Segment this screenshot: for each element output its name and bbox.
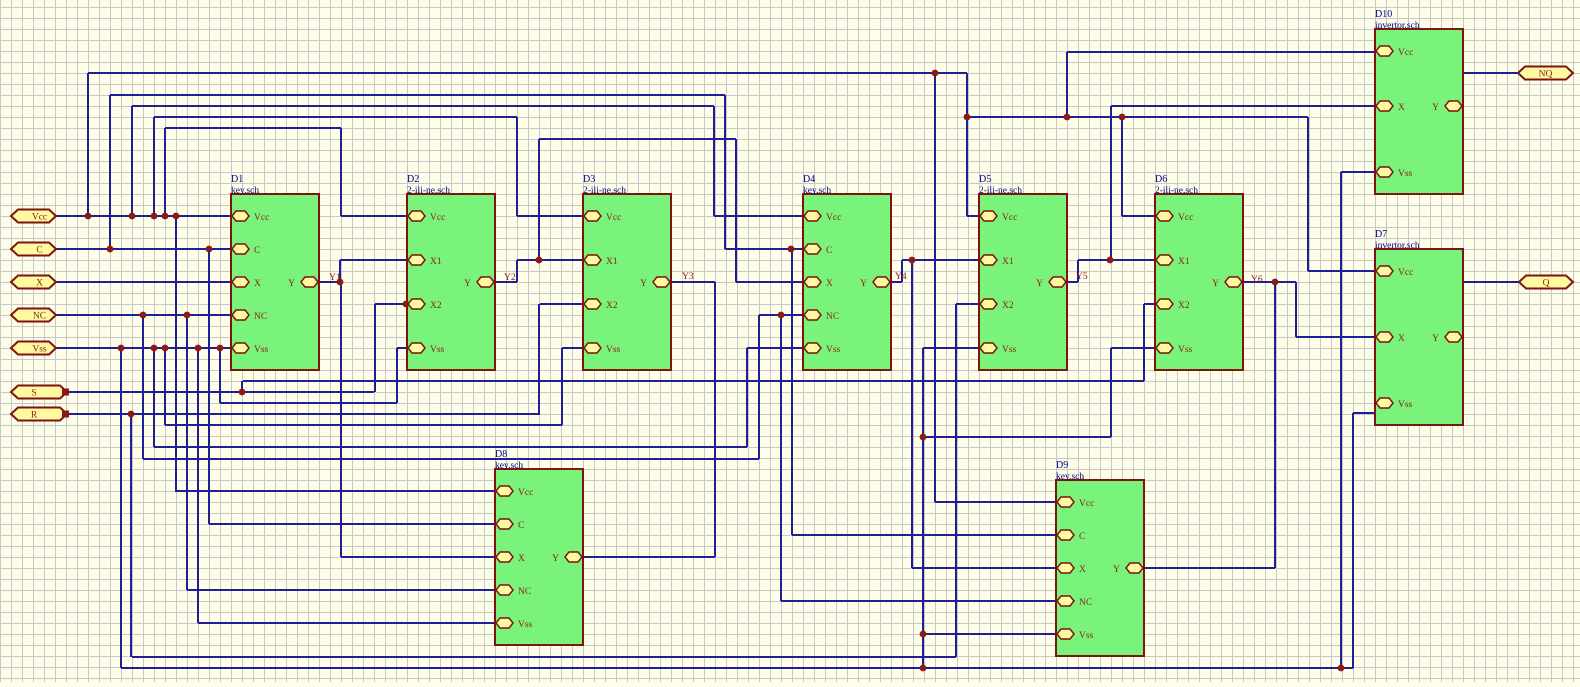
- junction (791,249): [788, 246, 795, 253]
- wire NC rail y=459: [143, 458, 759, 460]
- junction (176,216): [173, 213, 180, 220]
- port C: [11, 243, 56, 256]
- svg-text:R: R: [31, 411, 38, 421]
- junction (121,348): [118, 345, 125, 352]
- wire Y2 from D2.Y: [495, 281, 517, 283]
- wire Vss drop x=165b: [164, 348, 166, 425]
- wire Vcc port to D1.Vcc: [56, 215, 231, 217]
- wire Y1 from D1.Y: [319, 281, 340, 283]
- wire Vcc drop x=935 to D9: [934, 73, 936, 502]
- block D10 (invertor.sch): [1375, 9, 1463, 194]
- wire Vss rail y=447: [154, 446, 747, 448]
- wire NC riser x=759 to D4: [758, 315, 760, 459]
- svg-text:D6: D6: [1155, 174, 1167, 185]
- svg-text:Q: Q: [1543, 279, 1550, 289]
- wire Vcc into D8.Vcc: [176, 490, 495, 492]
- wire Vcc riser x=165: [164, 128, 166, 216]
- svg-text:X2: X2: [1178, 301, 1190, 311]
- svg-text:X: X: [1079, 565, 1086, 575]
- wire Y6 to D9.Y: [1144, 567, 1275, 569]
- svg-text:Y6: Y6: [1251, 275, 1263, 285]
- junction (967,117): [964, 114, 971, 121]
- svg-text:X1: X1: [1002, 257, 1014, 267]
- wire Y4 into D5.X1: [902, 259, 979, 261]
- wire Vss riser x=1353 to D7: [1352, 413, 1354, 668]
- svg-text:Vcc: Vcc: [430, 213, 445, 223]
- svg-text:Vcc: Vcc: [254, 213, 269, 223]
- wire NC into D8.NC: [187, 589, 495, 591]
- svg-text:Vcc: Vcc: [826, 213, 841, 223]
- svg-text:X1: X1: [606, 257, 618, 267]
- svg-text:Y2: Y2: [504, 273, 516, 283]
- svg-text:Y: Y: [288, 279, 295, 289]
- block D5 (2-ili-ne.sch): [979, 174, 1067, 370]
- wire Vss drop x=198 to D8: [197, 348, 199, 623]
- wire Y2 drop x=736: [735, 139, 737, 282]
- svg-text:Vss: Vss: [826, 345, 841, 355]
- svg-text:Vcc: Vcc: [1079, 499, 1094, 509]
- wire Vcc into D10.Vcc: [1067, 51, 1375, 53]
- svg-text:key.sch: key.sch: [1056, 472, 1084, 482]
- wire Vcc top rail y=73: [88, 72, 967, 74]
- wire Y5 jog up: [1077, 260, 1079, 282]
- wire R into D5.X2: [956, 303, 979, 305]
- wire Vcc drop x=967 to D5: [966, 73, 968, 216]
- block D9 (key.sch): [1056, 460, 1144, 656]
- port X: [11, 276, 56, 289]
- junction (143,315): [140, 312, 147, 319]
- svg-text:2-ili-ne.sch: 2-ili-ne.sch: [407, 186, 450, 196]
- wire Vss into D3.Vss: [562, 347, 583, 349]
- wire Y5 from D5.Y: [1067, 281, 1078, 283]
- svg-text:X2: X2: [430, 301, 442, 311]
- wire Vss drop x=121: [120, 348, 122, 668]
- wire C port to D1.C: [56, 248, 231, 250]
- wire Vcc into D3.Vcc: [517, 215, 583, 217]
- wire R riser x=956 to D5.X2: [955, 304, 957, 657]
- svg-text:X: X: [826, 279, 833, 289]
- svg-text:Vcc: Vcc: [1398, 48, 1413, 58]
- junction (935,73): [932, 70, 939, 77]
- wire Vcc rail y=117 right: [967, 116, 1308, 118]
- wire Vss into D2.Vss: [397, 347, 407, 349]
- wire S riser x=1144 to D6.X2: [1143, 304, 1145, 381]
- wire Y3 from D3.Y: [671, 281, 715, 283]
- wire C drop x=725 to D4: [724, 95, 726, 249]
- wire Y3 drop to D8.Y: [714, 282, 716, 557]
- wire Vss riser x=397 to D2: [396, 348, 398, 403]
- junction (1122,117): [1119, 114, 1126, 121]
- wire Vcc drop x=517 to D3: [516, 117, 518, 216]
- wire Vcc riser x=88: [87, 73, 89, 216]
- svg-text:Vcc: Vcc: [1178, 213, 1193, 223]
- svg-text:D10: D10: [1375, 9, 1392, 20]
- wire Vss riser x=562 to D3: [561, 348, 563, 425]
- junction (132,216): [129, 213, 136, 220]
- junction (406,304): [403, 301, 410, 308]
- junction (340,282): [337, 279, 344, 286]
- svg-text:Vss: Vss: [1178, 345, 1193, 355]
- wire Vss drop x=154b: [153, 348, 155, 447]
- svg-text:Vss: Vss: [1002, 345, 1017, 355]
- wire Vss bottom rail y=668: [121, 667, 1353, 669]
- svg-text:Vcc: Vcc: [1398, 268, 1413, 278]
- wire Y1 into D2.X1: [340, 259, 407, 261]
- svg-text:NQ: NQ: [1539, 70, 1553, 80]
- wire Y6 into D7.X: [1296, 336, 1375, 338]
- wire C into D9.C: [792, 534, 1056, 536]
- junction (187,315): [184, 312, 191, 319]
- wire Vcc drop x=341 to D2: [340, 128, 342, 216]
- wire Vcc riser x=132: [131, 106, 133, 216]
- port Q: [1519, 276, 1573, 289]
- svg-text:Y: Y: [464, 279, 471, 289]
- svg-text:D8: D8: [495, 449, 507, 460]
- junction (912,260): [909, 257, 916, 264]
- svg-text:X1: X1: [1178, 257, 1190, 267]
- wire S into D2.X2: [375, 303, 406, 305]
- wire NC port to D1.NC: [56, 314, 231, 316]
- svg-text:Vcc: Vcc: [606, 213, 621, 223]
- svg-text:X2: X2: [1002, 301, 1014, 311]
- wire Vss into D8.Vss: [198, 622, 495, 624]
- block D3 (2-ili-ne.sch): [583, 174, 671, 370]
- wire Vcc drop x=1308 to D7: [1307, 117, 1309, 271]
- wire Vss into D9.Vss: [923, 633, 1056, 635]
- wire X port to D1.X: [56, 281, 231, 283]
- wire Vss riser x=1111 to D6: [1110, 348, 1112, 437]
- svg-text:2-ili-ne.sch: 2-ili-ne.sch: [1155, 186, 1198, 196]
- wire Y2 rail y=139: [539, 138, 736, 140]
- svg-text:X: X: [1398, 103, 1405, 113]
- svg-text:C: C: [826, 246, 832, 256]
- wire Y4 from D4.Y: [891, 281, 902, 283]
- junction (110,249): [107, 246, 114, 253]
- svg-text:Vcc: Vcc: [1002, 213, 1017, 223]
- wire Y1 into D8.X: [341, 556, 495, 558]
- svg-text:Vss: Vss: [606, 345, 621, 355]
- wire Vss into D4.Vss: [747, 347, 803, 349]
- wire Vss riser x=747 to D4: [746, 348, 748, 447]
- svg-text:Y: Y: [1113, 565, 1120, 575]
- wire Y2 jog up: [516, 260, 518, 282]
- wire Vcc into D7.Vcc: [1308, 270, 1375, 272]
- junction (165,216): [162, 213, 169, 220]
- wire Vss into D5.Vss: [923, 347, 979, 349]
- wire R port line y=414: [67, 413, 540, 415]
- wire R rail y=657: [132, 656, 956, 658]
- wire NC into D9.NC: [781, 600, 1056, 602]
- svg-text:Y: Y: [1036, 279, 1043, 289]
- wire Vcc rail y=117 left: [154, 116, 517, 118]
- svg-text:NC: NC: [518, 587, 531, 597]
- wire stub at D2.X2: [406, 293, 408, 304]
- wire Y1 jog up: [339, 260, 341, 282]
- svg-text:D5: D5: [979, 174, 991, 185]
- wire S rail y=381: [243, 380, 1144, 382]
- svg-text:Vss: Vss: [430, 345, 445, 355]
- block D4 (key.sch): [803, 174, 891, 370]
- svg-text:Y: Y: [640, 279, 647, 289]
- junction (154,348): [151, 345, 158, 352]
- wire NC drop x=781 to D9: [780, 315, 782, 601]
- svg-text:Vcc: Vcc: [32, 213, 47, 223]
- wire NC drop x=187 to D8: [186, 315, 188, 590]
- junction (220,348): [217, 345, 224, 352]
- wire Q from D7: [1463, 281, 1519, 283]
- block D7 (invertor.sch): [1375, 229, 1463, 425]
- wire Vss drop x=220: [219, 348, 221, 403]
- wire Vss rail y=437: [923, 436, 1111, 438]
- junction (1341,668): [1338, 665, 1345, 672]
- svg-text:invertor.sch: invertor.sch: [1375, 241, 1420, 251]
- svg-text:Y: Y: [1212, 279, 1219, 289]
- wire Vcc drop x=714 to D4: [713, 106, 715, 216]
- svg-text:NC: NC: [33, 312, 46, 322]
- wire Vcc into D2.Vcc: [341, 215, 407, 217]
- svg-text:Vcc: Vcc: [518, 488, 533, 498]
- wire Y6 from D6.Y: [1243, 281, 1296, 283]
- svg-text:C: C: [36, 246, 42, 256]
- svg-text:Y3: Y3: [682, 272, 694, 282]
- svg-text:X: X: [518, 554, 525, 564]
- svg-text:NC: NC: [826, 312, 839, 322]
- wire C drop x=792 to D9: [791, 249, 793, 535]
- wire S port line y=392: [67, 391, 374, 393]
- svg-text:2-ili-ne.sch: 2-ili-ne.sch: [979, 186, 1022, 196]
- wire Vcc drop x=1122 to D6: [1121, 117, 1123, 216]
- junction (154,216): [151, 213, 158, 220]
- wire Y4 into D9.X: [912, 567, 1056, 569]
- svg-text:Vss: Vss: [1079, 631, 1094, 641]
- wire Vss rail y=403: [220, 402, 397, 404]
- junction (242,392): [239, 389, 246, 396]
- wire S link x=242: [241, 381, 243, 392]
- svg-text:NC: NC: [1079, 598, 1092, 608]
- wire Vcc riser x=154: [153, 117, 155, 216]
- wire Y2 into D4.X: [736, 281, 803, 283]
- wire NC drop x=143: [142, 315, 144, 459]
- svg-text:D7: D7: [1375, 229, 1387, 240]
- svg-text:D2: D2: [407, 174, 419, 185]
- wire Vcc into D6.Vcc: [1122, 215, 1155, 217]
- junction (923,634): [920, 631, 927, 638]
- port Vcc: [11, 210, 56, 223]
- wire R into D3.X2: [540, 303, 583, 305]
- wire Vss port to D1.Vss: [56, 347, 231, 349]
- svg-text:Y: Y: [1432, 103, 1439, 113]
- wire Y3 to D8.Y: [583, 556, 715, 558]
- block D1 (key.sch): [231, 174, 319, 370]
- svg-text:Y: Y: [1432, 334, 1439, 344]
- svg-text:NC: NC: [254, 312, 267, 322]
- svg-text:X: X: [1398, 334, 1405, 344]
- wire Vcc rail y=128: [165, 127, 341, 129]
- wire Y5 into D10.X: [1111, 105, 1375, 107]
- port R: [11, 408, 69, 421]
- junction (781,315): [778, 312, 785, 319]
- wire NC into D4.NC: [759, 314, 803, 316]
- wire Vcc riser x=1067 to D10: [1066, 52, 1068, 117]
- junction (165,348): [162, 345, 169, 352]
- wire Y2 riser x=539: [538, 139, 540, 260]
- wire Vcc into D9.Vcc: [935, 501, 1056, 503]
- wire Vss riser x=923: [922, 348, 924, 668]
- svg-text:key.sch: key.sch: [495, 461, 523, 471]
- svg-text:X2: X2: [606, 301, 618, 311]
- port Vss: [11, 342, 56, 355]
- svg-text:Vss: Vss: [32, 345, 47, 355]
- wire Vss into D6.Vss: [1111, 347, 1155, 349]
- port NC: [11, 309, 56, 322]
- wire Vcc into D4.Vcc: [714, 215, 803, 217]
- svg-text:X: X: [254, 279, 261, 289]
- wire Vcc drop x=176 to D8: [175, 216, 177, 492]
- svg-text:Vss: Vss: [518, 620, 533, 630]
- svg-text:D9: D9: [1056, 460, 1068, 471]
- svg-text:D3: D3: [583, 174, 595, 185]
- svg-text:Y4: Y4: [895, 272, 907, 282]
- svg-text:Y: Y: [860, 279, 867, 289]
- svg-text:D1: D1: [231, 174, 243, 185]
- svg-text:key.sch: key.sch: [803, 186, 831, 196]
- svg-text:key.sch: key.sch: [231, 186, 259, 196]
- wire Y6 drop to D9.Y: [1274, 282, 1276, 568]
- junction (131,414): [128, 411, 135, 418]
- junction (923,668): [920, 665, 927, 672]
- svg-text:C: C: [254, 246, 260, 256]
- junction (923,437): [920, 434, 927, 441]
- junction (88,216): [85, 213, 92, 220]
- wire NQ from D10: [1463, 72, 1518, 74]
- wire Y4 jog up: [901, 260, 903, 282]
- svg-text:Y5: Y5: [1076, 272, 1088, 282]
- wire C rail y=95: [110, 94, 725, 96]
- svg-text:Vss: Vss: [1398, 400, 1413, 410]
- junction (1110,260): [1107, 257, 1114, 264]
- block D8 (key.sch): [495, 449, 583, 645]
- svg-text:S: S: [31, 389, 36, 399]
- port NQ: [1518, 67, 1573, 80]
- svg-text:D4: D4: [803, 174, 815, 185]
- wire Vcc rail y=106: [132, 105, 714, 107]
- svg-text:invertor.sch: invertor.sch: [1375, 21, 1420, 31]
- wire C into D8.C: [209, 523, 495, 525]
- wire Y5 riser to D10.X: [1110, 106, 1112, 260]
- junction (198,348): [195, 345, 202, 352]
- svg-text:Y: Y: [552, 554, 559, 564]
- wire C drop x=209 to D8: [208, 249, 210, 524]
- svg-text:C: C: [518, 521, 524, 531]
- wire C into D4.C: [725, 248, 803, 250]
- block D6 (2-ili-ne.sch): [1155, 174, 1243, 370]
- svg-text:Y1: Y1: [329, 273, 341, 283]
- junction (1275,282): [1272, 279, 1279, 286]
- svg-text:X1: X1: [430, 257, 442, 267]
- wire R riser x=539 to D3.X2: [538, 304, 540, 414]
- svg-text:X: X: [36, 279, 43, 289]
- wire Y4 drop to D9.X: [911, 260, 913, 568]
- svg-text:C: C: [1079, 532, 1085, 542]
- port S: [11, 386, 69, 399]
- wire Vss into D7: [1353, 412, 1375, 414]
- block D2 (2-ili-ne.sch): [407, 174, 495, 370]
- wire S riser x=375 to D2.X2: [374, 304, 376, 392]
- wire Y2 into D3.X1: [517, 259, 583, 261]
- junction (1067,117): [1064, 114, 1071, 121]
- wire Y6 jog down: [1295, 282, 1297, 337]
- svg-text:Vss: Vss: [1398, 169, 1413, 179]
- wire Vss riser x=1341 to D10: [1340, 172, 1342, 668]
- wire C riser x=110: [109, 95, 111, 249]
- junction (539,260): [536, 257, 543, 264]
- wire Y5 into D6.X1: [1078, 259, 1155, 261]
- svg-text:2-ili-ne.sch: 2-ili-ne.sch: [583, 186, 626, 196]
- svg-text:Vss: Vss: [254, 345, 269, 355]
- wire Vcc into D5.Vcc: [967, 215, 979, 217]
- wire S into D6.X2: [1144, 303, 1155, 305]
- wire Y1 drop to D8.X: [340, 282, 342, 557]
- wire Vss into D10.Vss: [1341, 171, 1375, 173]
- wire R drop x=131: [130, 414, 132, 657]
- wire Vss rail y=425: [165, 424, 562, 426]
- junction (209,249): [206, 246, 213, 253]
